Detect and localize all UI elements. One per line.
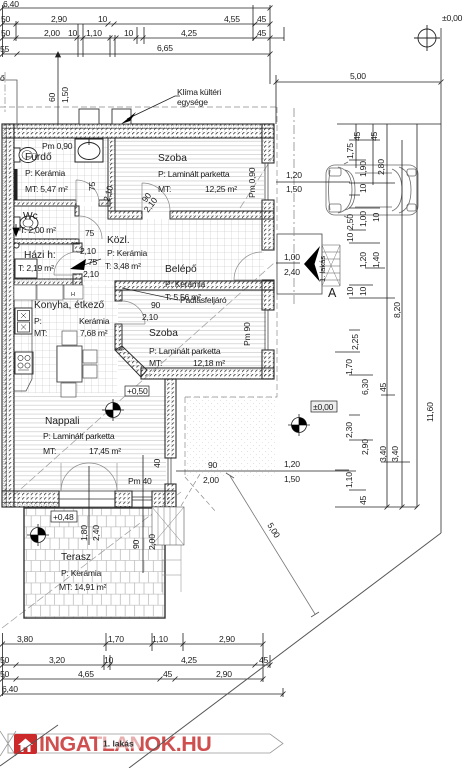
svg-text:P: Kerámia: P: Kerámia — [61, 568, 101, 578]
svg-text:ő: ő — [0, 73, 5, 83]
wire roof dash right — [276, 107, 278, 233]
dim bottom row2 — [0, 655, 273, 670]
svg-text:6,40: 6,40 — [2, 684, 18, 694]
fixture hazi washer — [15, 259, 37, 278]
dim south window vertical — [131, 455, 157, 573]
floor Konyha tiles — [14, 285, 117, 393]
svg-text:2,10: 2,10 — [142, 312, 158, 322]
wall szoba1 west — [108, 138, 115, 211]
svg-text:10: 10 — [68, 28, 78, 38]
svg-text:10: 10 — [371, 212, 381, 222]
fixture wc vent arrow — [13, 224, 19, 236]
dim 500 diagonal — [226, 473, 319, 617]
window szoba2 east — [262, 310, 274, 350]
svg-text:10: 10 — [124, 28, 134, 38]
floor Nappali laminate — [14, 393, 166, 492]
wall wc east — [75, 206, 79, 216]
floor Szoba1 laminate — [110, 138, 264, 212]
dim top verticals — [3, 5, 285, 84]
wire roof diagonal B — [13, 263, 274, 496]
svg-text:45: 45 — [369, 131, 379, 141]
wall nappali east — [165, 379, 176, 507]
svg-text:1,10: 1,10 — [152, 634, 168, 644]
svg-text:1,50: 1,50 — [60, 87, 70, 103]
svg-text:2,40: 2,40 — [284, 267, 300, 277]
dim 500 top line — [274, 71, 444, 124]
furniture chair south — [61, 383, 76, 397]
dim top row1 line — [0, 6, 273, 11]
svg-text:P: Laminált parketta: P: Laminált parketta — [43, 431, 115, 441]
attic ladder leader — [122, 288, 227, 305]
dim terrace door vertical — [79, 466, 101, 545]
svg-text:2,25: 2,25 — [350, 334, 360, 350]
svg-text:2,80: 2,80 — [376, 159, 386, 175]
svg-text:Pm 0,90: Pm 0,90 — [247, 167, 257, 198]
door szoba1 arc — [142, 183, 170, 211]
dim right rotated labels — [344, 131, 435, 505]
window nappali south Pm40 small — [132, 491, 152, 507]
floor Furdo tiles — [14, 138, 108, 202]
terrace steps east — [152, 507, 184, 592]
entrance arrow — [304, 246, 320, 282]
fixture kitchen upper cabinets — [14, 285, 83, 300]
svg-text:6,30: 6,30 — [360, 379, 370, 395]
fixture furdo toilet — [14, 148, 37, 163]
svg-text:4,25: 4,25 — [181, 655, 197, 665]
benchmark topright — [414, 25, 440, 51]
fixture wc toilet — [14, 216, 38, 230]
svg-text:10: 10 — [104, 655, 114, 665]
furniture chair north — [62, 331, 77, 345]
svg-text:2,90: 2,90 — [51, 14, 67, 24]
dim bottom row3 — [0, 677, 266, 682]
svg-text:P: Kerámia: P: Kerámia — [165, 279, 205, 289]
paved area dots — [185, 397, 277, 477]
room label konyha — [34, 300, 110, 338]
dim top row4 line — [0, 52, 273, 58]
fixture hazi wall circle — [14, 243, 19, 248]
svg-text:Klíma kültéri: Klíma kültéri — [177, 87, 221, 97]
svg-text:3,40: 3,40 — [378, 446, 388, 462]
svg-text:T: 2,19 m²: T: 2,19 m² — [18, 263, 54, 273]
svg-text:17,45 m²: 17,45 m² — [89, 446, 121, 456]
svg-text:Pm 40: Pm 40 — [128, 476, 152, 486]
AC unit 2 — [112, 109, 131, 124]
room label terasz — [59, 552, 107, 592]
svg-text:1,20: 1,20 — [286, 170, 302, 180]
wall left exterior — [2, 124, 14, 507]
svg-text:Terasz: Terasz — [61, 552, 91, 563]
svg-text:T: 3,48 m²: T: 3,48 m² — [105, 261, 141, 271]
svg-text:75: 75 — [88, 257, 98, 267]
window nappali east Pm40 — [165, 458, 176, 484]
dim entrance labels — [276, 252, 300, 277]
svg-text:2,00: 2,00 — [44, 28, 60, 38]
boundary right vertical — [440, 28, 442, 533]
svg-text:55: 55 — [0, 44, 10, 54]
svg-text:4,25: 4,25 — [181, 28, 197, 38]
AC unit 1 — [79, 109, 99, 124]
floor Wc tiles — [14, 206, 77, 241]
svg-text:2,50: 2,50 — [345, 214, 355, 230]
svg-text:1,40: 1,40 — [371, 252, 381, 268]
svg-text:1,20: 1,20 — [284, 459, 300, 469]
fixture furdo washbasin — [75, 139, 103, 162]
dim bottom row4 — [0, 633, 286, 697]
svg-text:2,90: 2,90 — [216, 669, 232, 679]
furniture chair east1 — [83, 350, 97, 363]
svg-text:2,10: 2,10 — [83, 269, 99, 279]
svg-text:75: 75 — [85, 228, 95, 238]
wall wc south — [14, 239, 79, 244]
svg-text:4,65: 4,65 — [78, 669, 94, 679]
room label furdo — [25, 141, 73, 194]
dim top row3 labels — [1, 28, 267, 38]
svg-text:1,70: 1,70 — [344, 359, 354, 375]
svg-text:1,00: 1,00 — [358, 211, 368, 227]
entrance steps — [322, 245, 340, 286]
wire roof dash top — [0, 106, 277, 108]
wire eave dash southeast vertical — [184, 397, 186, 477]
svg-text:1,70: 1,70 — [108, 634, 124, 644]
svg-text:10: 10 — [345, 232, 355, 242]
door belepo entrance arc — [234, 252, 262, 280]
wall top exterior — [2, 124, 274, 138]
svg-text:2,10: 2,10 — [80, 246, 96, 256]
svg-text:1,20: 1,20 — [358, 252, 368, 268]
svg-text:±0,00: ±0,00 — [442, 13, 463, 23]
svg-text:3,40: 3,40 — [390, 446, 400, 462]
svg-text:Szoba: Szoba — [158, 153, 187, 164]
svg-text:45: 45 — [257, 14, 267, 24]
svg-text:1,80: 1,80 — [79, 525, 89, 541]
wall szoba2 south — [141, 368, 274, 379]
fixture kitchen hob — [15, 352, 33, 374]
boundary diagonal — [129, 533, 441, 768]
svg-text:1. lakás: 1. lakás — [318, 256, 327, 282]
room label nappali — [43, 416, 121, 456]
svg-text:12,25 m²: 12,25 m² — [205, 184, 237, 194]
svg-text:Wc: Wc — [23, 211, 38, 222]
wall szoba1 south — [108, 211, 274, 219]
porch belepo outside — [277, 234, 322, 294]
floor Terasz bricks — [24, 508, 165, 618]
svg-text:90: 90 — [151, 300, 161, 310]
svg-text:Házi h:: Házi h: — [24, 250, 56, 261]
svg-text:Szoba: Szoba — [149, 328, 178, 339]
svg-text:90: 90 — [131, 539, 141, 549]
svg-text:1,10: 1,10 — [86, 28, 102, 38]
svg-text:3,20: 3,20 — [49, 655, 65, 665]
boundary bottom left diagonal — [0, 725, 58, 766]
svg-text:5,00: 5,00 — [350, 71, 366, 81]
room label wc — [20, 211, 56, 235]
svg-text:egysége: egysége — [177, 97, 208, 107]
svg-text:MT: 14,91 m²: MT: 14,91 m² — [59, 582, 107, 592]
dim top row3 line — [0, 36, 284, 41]
svg-text:8,20: 8,20 — [392, 302, 402, 318]
window szoba1 east — [262, 163, 274, 200]
svg-text:45: 45 — [352, 131, 362, 141]
svg-text:P:: P: — [34, 316, 42, 326]
svg-text:6,40: 6,40 — [3, 0, 19, 9]
wire eave dash southeast horizontal — [185, 294, 277, 397]
svg-text:P: Laminált parketta: P: Laminált parketta — [158, 169, 230, 179]
svg-text:Pm 90: Pm 90 — [242, 322, 252, 346]
door wc arc — [79, 216, 102, 239]
window nappali south terrace door sill — [59, 491, 115, 507]
svg-text:90: 90 — [208, 460, 218, 470]
door dim szoba2 — [142, 300, 161, 322]
svg-text:50: 50 — [0, 669, 10, 679]
svg-text:MT:: MT: — [158, 184, 171, 194]
svg-text:1,10: 1,10 — [344, 472, 354, 488]
floor Szoba2 laminate — [118, 290, 266, 370]
svg-text:2,00: 2,00 — [147, 534, 157, 550]
svg-text:6,65: 6,65 — [157, 43, 173, 53]
svg-text:+0,48: +0,48 — [53, 512, 74, 522]
svg-text:1,90: 1,90 — [358, 161, 368, 177]
svg-text:75: 75 — [87, 181, 97, 191]
klima callout — [121, 87, 221, 124]
dim window szoba1 line — [276, 170, 350, 194]
watermark logo — [14, 732, 211, 756]
dim top row2 labels — [1, 14, 267, 24]
level marker 000 — [288, 401, 337, 436]
floor Kozl tiles — [79, 206, 110, 282]
svg-text:Közl.: Közl. — [107, 235, 130, 246]
room label kozl — [105, 235, 147, 271]
wall szoba2 west — [115, 290, 122, 350]
door dim szoba1 — [140, 191, 160, 215]
svg-text:MT:: MT: — [149, 358, 162, 368]
door hazi arc — [54, 252, 77, 275]
level marker 050 — [102, 386, 149, 421]
wire roof diagonal C — [240, 155, 274, 208]
room label szoba2 — [149, 328, 225, 368]
watermark banner — [0, 731, 283, 756]
svg-text:T: 5,56 m²: T: 5,56 m² — [165, 292, 201, 302]
svg-text:P: Laminált parketta: P: Laminált parketta — [149, 346, 221, 356]
svg-text:A: A — [328, 286, 337, 300]
wire dashdot left edge — [4, 72, 6, 112]
svg-text:10: 10 — [358, 183, 368, 193]
wall szoba2 north / belepo south — [115, 281, 274, 290]
svg-text:45: 45 — [358, 495, 368, 505]
wall szoba2 chamfer — [115, 346, 147, 377]
label elo fragment — [0, 73, 17, 128]
svg-text:2,30: 2,30 — [344, 422, 354, 438]
fixture kitchen sink — [15, 308, 32, 334]
svg-text:Nappali: Nappali — [45, 416, 80, 427]
svg-text:2,00: 2,00 — [203, 475, 219, 485]
wall hazi south / konyha north — [14, 279, 82, 285]
svg-text:10: 10 — [345, 286, 355, 296]
door dim hazi — [83, 257, 99, 279]
svg-text:3,80: 3,80 — [17, 634, 33, 644]
wire eave dash corner diagonals — [181, 474, 216, 512]
svg-text:10: 10 — [358, 286, 368, 296]
svg-text:1. lakás: 1. lakás — [103, 739, 134, 749]
svg-text:2,90: 2,90 — [219, 634, 235, 644]
svg-text:MT: 5,47 m²: MT: 5,47 m² — [25, 184, 68, 194]
dim top row2 line — [0, 22, 273, 27]
svg-text:Konyha, étkező: Konyha, étkező — [34, 300, 105, 311]
wall furdo-kozl divider — [14, 200, 110, 206]
wall hazi east — [73, 243, 82, 285]
furniture chair east2 — [83, 365, 97, 378]
svg-text:MT:: MT: — [34, 328, 47, 338]
furniture table — [57, 346, 82, 382]
door dim wc — [80, 228, 96, 256]
dim top row4 labels — [0, 43, 173, 54]
svg-text:45: 45 — [163, 669, 173, 679]
svg-text:45: 45 — [378, 382, 388, 392]
floor Belepo tiles — [108, 219, 264, 282]
fixture kitchen counter edge — [14, 300, 32, 391]
wall south exterior — [2, 491, 176, 507]
svg-text:Fürdő: Fürdő — [25, 152, 52, 163]
svg-text:Kerámia: Kerámia — [79, 316, 110, 326]
svg-text:1,75: 1,75 — [345, 143, 355, 159]
svg-text:11,60: 11,60 — [425, 402, 435, 422]
svg-text:2,90: 2,90 — [360, 439, 370, 455]
svg-text:Belépő: Belépő — [165, 264, 197, 275]
svg-text:45: 45 — [257, 28, 267, 38]
svg-text:H: H — [71, 292, 75, 298]
svg-text:60: 60 — [47, 92, 57, 102]
door furdo arc — [76, 180, 99, 203]
svg-text:1,50: 1,50 — [286, 184, 302, 194]
wire roof diagonal A — [2, 492, 181, 628]
svg-text:T: 2,00 m²: T: 2,00 m² — [20, 225, 56, 235]
svg-text:1,00: 1,00 — [284, 252, 300, 262]
dim right verticals — [335, 124, 441, 510]
svg-text:50: 50 — [0, 655, 10, 665]
svg-text:Pm 0,90: Pm 0,90 — [42, 141, 73, 151]
svg-text:10: 10 — [98, 14, 108, 24]
dim bottom row1 — [0, 633, 266, 651]
svg-text:7,68 m²: 7,68 m² — [80, 328, 108, 338]
label 1 lakas banner — [97, 737, 140, 749]
svg-text:4,55: 4,55 — [224, 14, 240, 24]
door szoba2 arc — [122, 301, 145, 324]
svg-text:40: 40 — [152, 458, 162, 468]
car — [326, 162, 418, 218]
section line A — [293, 108, 295, 304]
wall right exterior szoba2 — [262, 290, 274, 379]
door dim furdo — [87, 181, 115, 202]
level marker 048 — [27, 511, 77, 546]
wall right exterior upper — [262, 124, 274, 290]
svg-text:P: Kerámia: P: Kerámia — [25, 168, 65, 178]
svg-text:2,40: 2,40 — [91, 525, 101, 541]
terrace outline — [24, 508, 165, 618]
fixture furdo radiator — [14, 169, 18, 200]
room label hazi — [18, 250, 56, 273]
floor Hazi tiles — [14, 243, 75, 281]
dim window lower line — [176, 459, 356, 485]
room label belepo — [165, 264, 205, 302]
door hazi arrow — [70, 259, 101, 270]
dim vertical 60-150 — [47, 54, 70, 124]
svg-text:+0,50: +0,50 — [127, 386, 148, 396]
svg-text:±0,00: ±0,00 — [313, 402, 334, 412]
svg-text:P: Kerámia: P: Kerámia — [107, 248, 147, 258]
svg-text:MT:: MT: — [43, 446, 56, 456]
svg-text:1,50: 1,50 — [284, 474, 300, 484]
room label szoba1 — [158, 153, 237, 194]
door terrace french arcs — [61, 463, 117, 491]
svg-text:12,18 m²: 12,18 m² — [193, 358, 225, 368]
